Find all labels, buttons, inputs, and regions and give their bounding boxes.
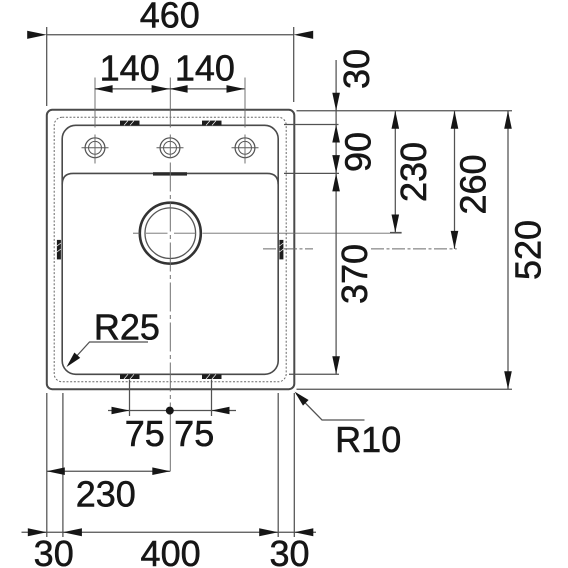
svg-text:370: 370 xyxy=(334,244,375,304)
svg-text:75: 75 xyxy=(125,413,165,454)
svg-text:520: 520 xyxy=(508,220,549,280)
svg-text:90: 90 xyxy=(338,132,379,172)
svg-text:460: 460 xyxy=(140,0,200,36)
svg-text:30: 30 xyxy=(336,49,377,89)
svg-text:30: 30 xyxy=(34,533,74,568)
svg-text:R25: R25 xyxy=(94,306,160,347)
svg-text:400: 400 xyxy=(141,533,201,568)
svg-text:30: 30 xyxy=(269,533,309,568)
svg-text:140: 140 xyxy=(100,47,160,88)
svg-text:230: 230 xyxy=(76,473,136,514)
svg-text:260: 260 xyxy=(453,154,494,214)
svg-text:230: 230 xyxy=(393,142,434,202)
svg-text:R10: R10 xyxy=(335,419,401,460)
svg-text:140: 140 xyxy=(175,47,235,88)
svg-text:75: 75 xyxy=(174,413,214,454)
